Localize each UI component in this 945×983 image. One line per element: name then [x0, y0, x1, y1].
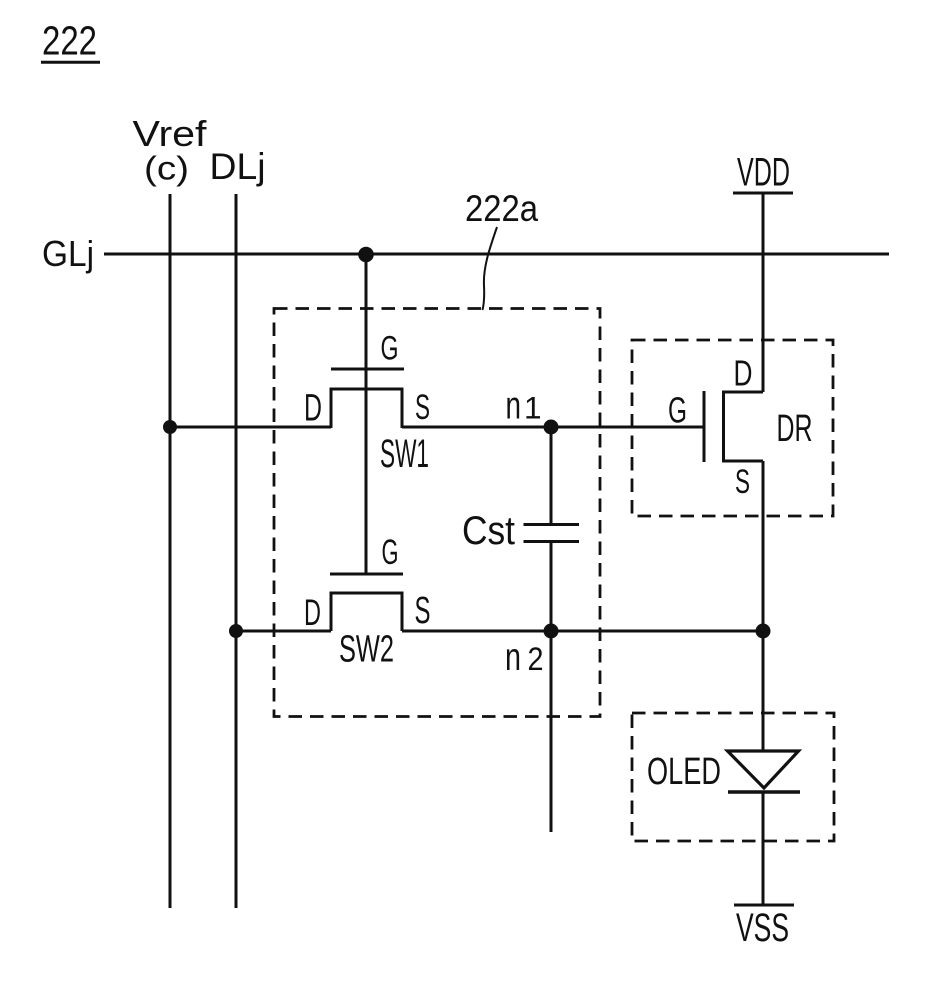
- label S of DR: [735, 463, 750, 501]
- power label VDD: [737, 151, 790, 195]
- transistor SW1 channel: [331, 389, 402, 428]
- svg-text:G: G: [381, 330, 399, 368]
- svg-text:Cst: Cst: [462, 509, 515, 553]
- svg-text:SW1: SW1: [380, 432, 429, 476]
- wire OLED cathode to VSS: [762, 792, 765, 905]
- wire DR source down through n2 to OLED: [762, 461, 765, 751]
- label G of SW2: [382, 533, 399, 572]
- wire gate line from GLj to SW2 gate: [365, 254, 368, 574]
- label SW2: [339, 629, 394, 671]
- stub wire below n2: [550, 631, 553, 832]
- VDD terminal bar: [733, 192, 793, 195]
- VSS terminal bar: [734, 904, 794, 907]
- label 222a: [465, 187, 538, 229]
- svg-text:S: S: [415, 388, 430, 427]
- label OLED: [647, 751, 721, 793]
- svg-text:Vref: Vref: [133, 113, 208, 154]
- figure number 222: [42, 17, 97, 63]
- wire n2 from SW2 source to DR source line: [402, 630, 763, 633]
- capacitor Cst top plate: [524, 523, 580, 526]
- svg-text:DLj: DLj: [210, 146, 266, 187]
- svg-text:GLj: GLj: [42, 233, 94, 274]
- underline of 222: [41, 61, 100, 64]
- label n2: [505, 636, 544, 679]
- svg-text:222a: 222a: [465, 187, 538, 229]
- transistor SW2 gate bar: [330, 573, 403, 576]
- wire DLj to SW2 drain: [236, 630, 331, 633]
- power label VSS: [736, 906, 789, 950]
- svg-text:(c): (c): [144, 151, 189, 188]
- svg-text:G: G: [668, 390, 687, 431]
- svg-text:DR: DR: [777, 408, 813, 450]
- label Cst: [462, 509, 515, 553]
- dashed box OLED: [632, 713, 834, 841]
- diode OLED triangle: [728, 751, 799, 788]
- junction dot n2: [544, 624, 559, 639]
- svg-text:SW2: SW2: [339, 629, 394, 671]
- junction dot GLj / gate line: [358, 247, 374, 263]
- transistor DR gate bar: [703, 391, 706, 462]
- net label GLj: [42, 233, 94, 274]
- label S of SW1: [415, 388, 430, 427]
- capacitor Cst bottom lead: [550, 542, 553, 631]
- svg-text:S: S: [735, 463, 750, 501]
- transistor SW2 channel: [331, 593, 402, 631]
- svg-text:S: S: [415, 590, 431, 632]
- net label Vref (c): [133, 113, 208, 188]
- svg-text:VSS: VSS: [736, 906, 789, 950]
- junction dot at DR source line: [756, 624, 771, 639]
- dashed box 222a: [274, 309, 600, 717]
- svg-text:1: 1: [524, 390, 542, 426]
- svg-text:D: D: [734, 353, 753, 394]
- svg-text:n: n: [505, 636, 521, 679]
- svg-text:222: 222: [42, 17, 97, 63]
- capacitor Cst bottom plate: [524, 540, 580, 543]
- svg-text:n: n: [506, 385, 522, 428]
- svg-text:2: 2: [528, 641, 544, 677]
- wire Vref vertical: [169, 194, 172, 908]
- label D of DR: [734, 353, 753, 394]
- svg-text:D: D: [304, 592, 321, 633]
- svg-text:OLED: OLED: [647, 751, 721, 793]
- capacitor Cst top lead: [550, 427, 553, 525]
- wire SW1 source to n1 to DR gate: [402, 426, 704, 429]
- wire Vref to SW1 drain: [170, 426, 331, 429]
- diode OLED cathode bar: [728, 790, 800, 794]
- label D of SW1: [304, 388, 322, 430]
- transistor DR channel: [724, 392, 764, 461]
- svg-text:D: D: [304, 388, 322, 430]
- wire VDD to DR drain: [762, 193, 765, 392]
- leader line from 222a to dashed box: [483, 227, 498, 310]
- transistor SW1 gate bar: [331, 368, 404, 371]
- label SW1: [380, 432, 429, 476]
- svg-text:VDD: VDD: [737, 151, 790, 195]
- dashed box DR: [632, 340, 833, 516]
- label G of SW1: [381, 330, 399, 368]
- junction dot on Vref line: [163, 420, 177, 434]
- label n1: [506, 385, 542, 428]
- junction dot n1: [544, 420, 559, 435]
- label S of SW2: [415, 590, 431, 632]
- net label DLj: [210, 146, 266, 187]
- label DR: [777, 408, 813, 450]
- svg-text:G: G: [382, 533, 399, 572]
- wire GLj horizontal: [104, 253, 889, 256]
- wire DLj vertical: [235, 194, 238, 908]
- junction dot on DLj line: [229, 624, 243, 638]
- label D of SW2: [304, 592, 321, 633]
- label G of DR: [668, 390, 687, 431]
